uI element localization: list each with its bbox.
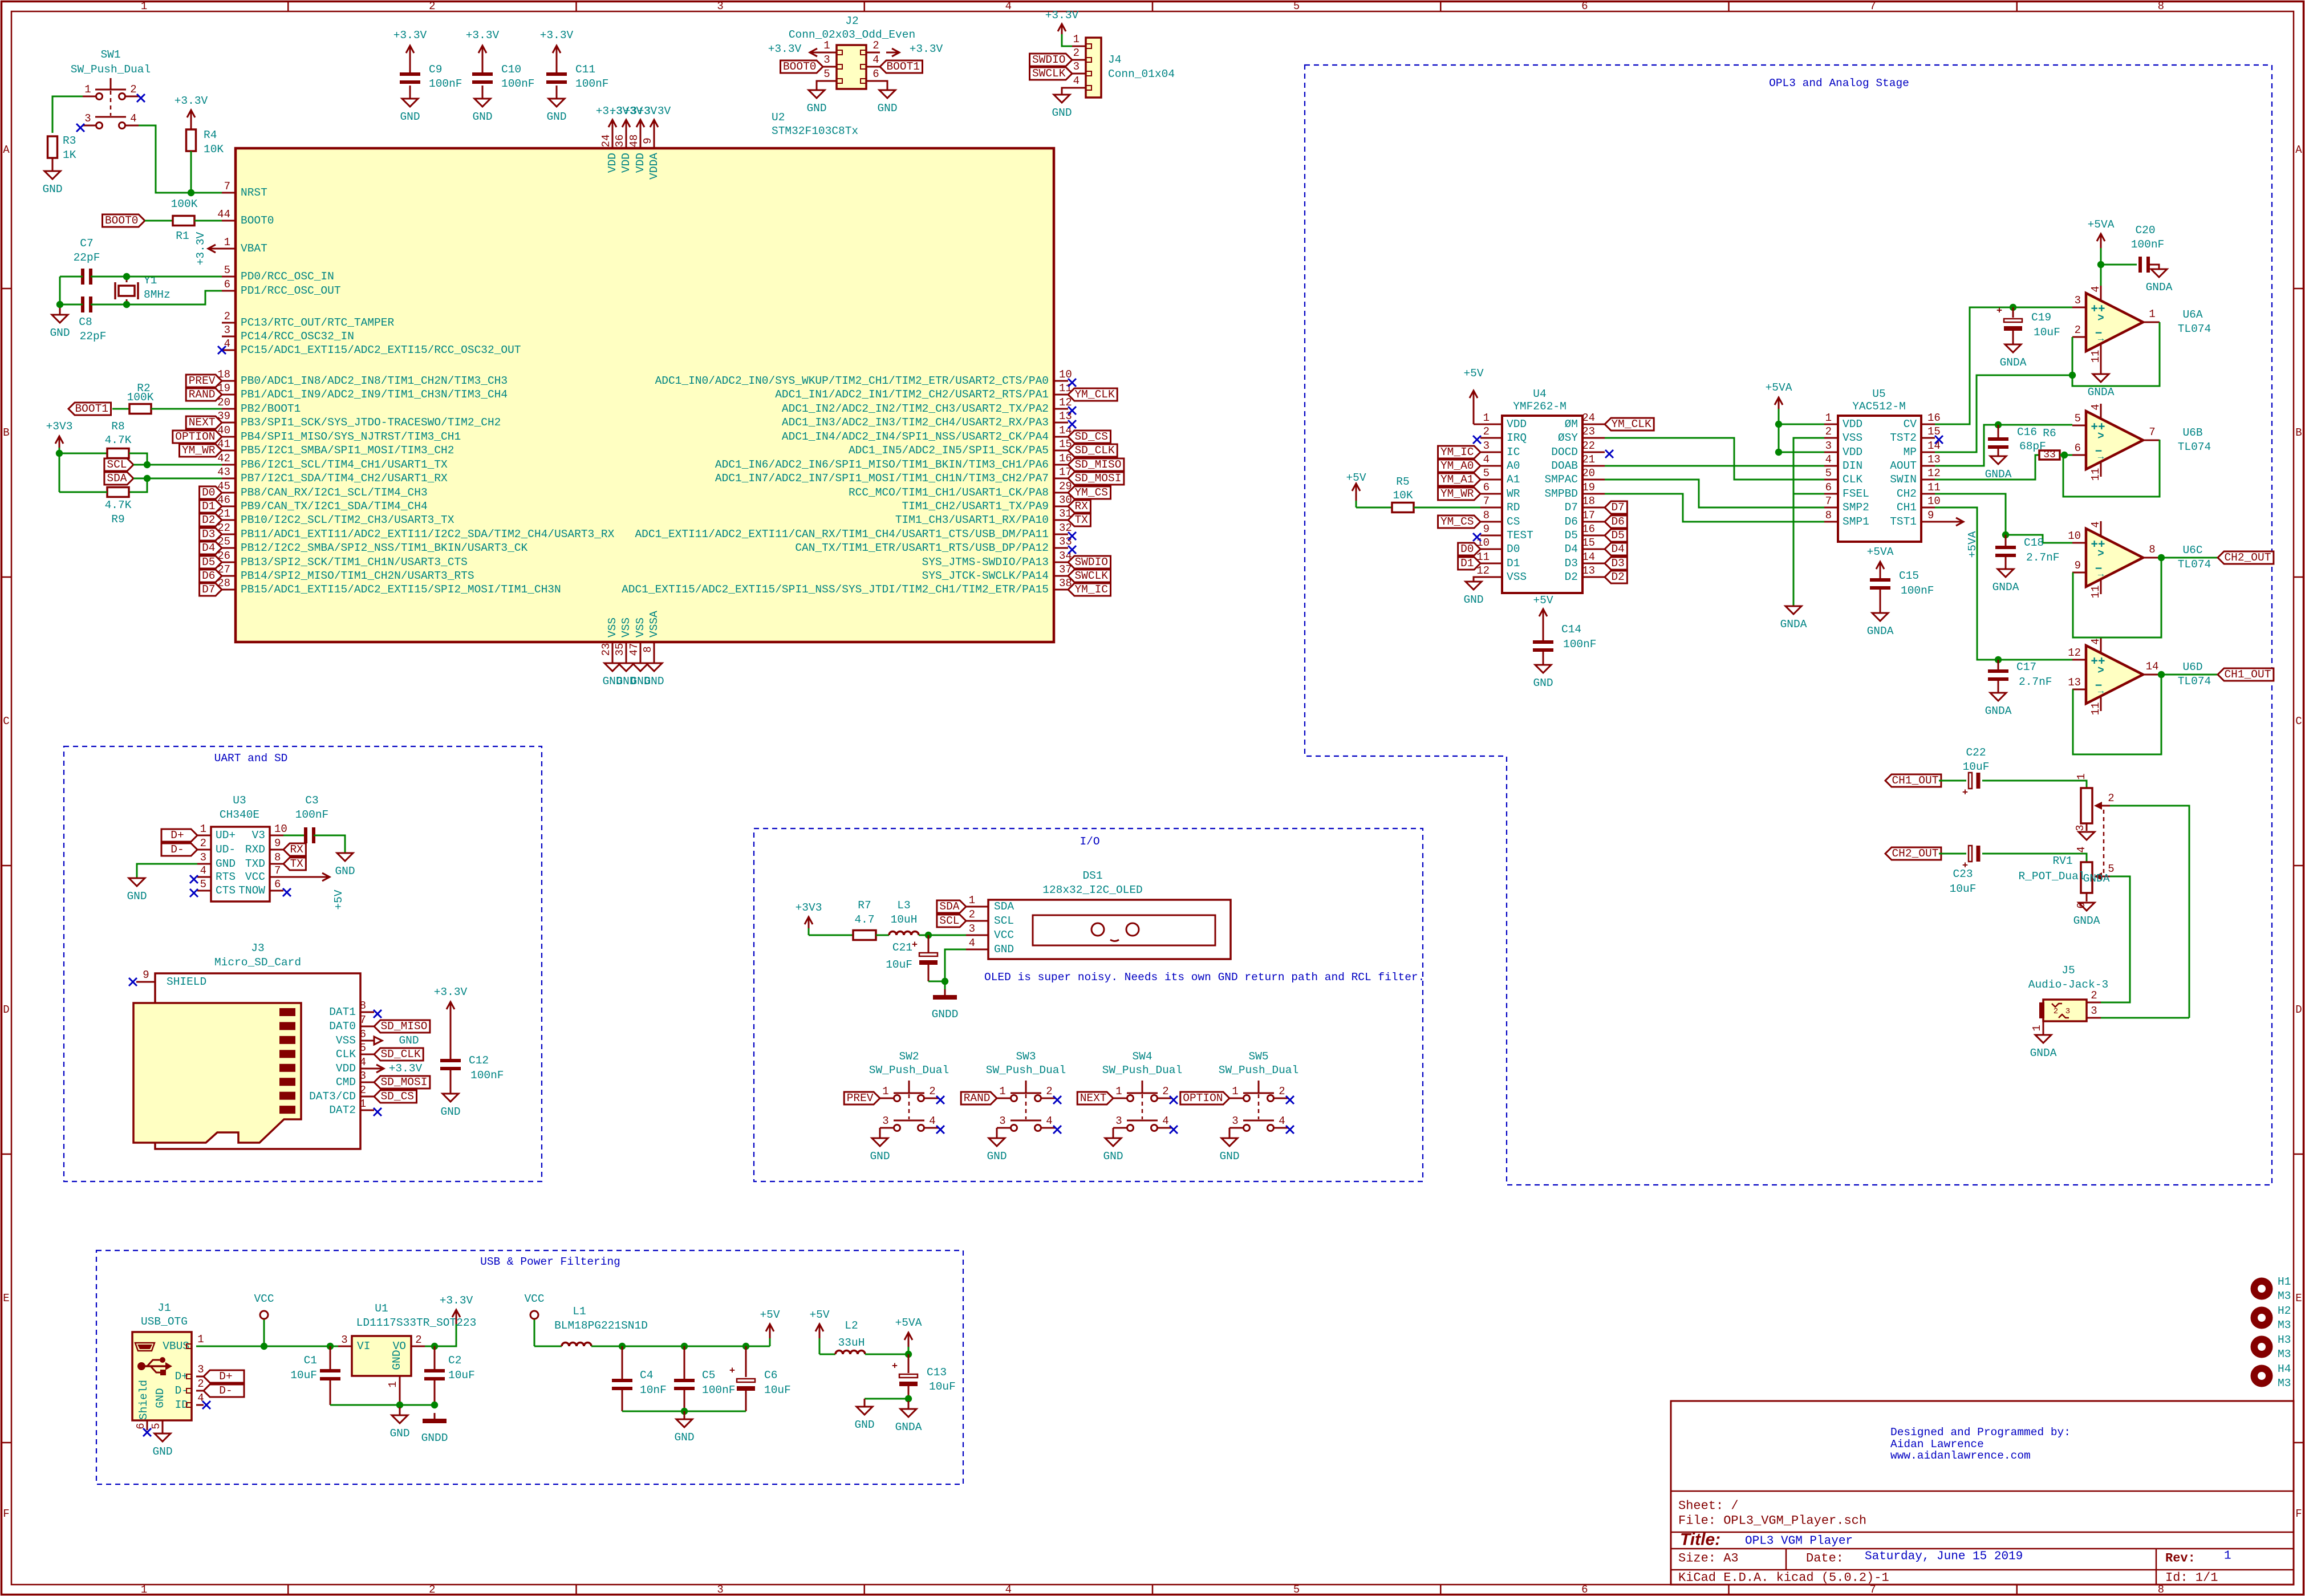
- junction SCL/R8: [144, 461, 151, 468]
- svg-text:8: 8: [1483, 509, 1490, 522]
- svg-text:22pF: 22pF: [74, 251, 100, 264]
- power +5VA (U6A): [2088, 218, 2115, 286]
- svg-text:14: 14: [1582, 551, 1595, 563]
- resistor R9 4.7K: [105, 488, 132, 526]
- hier label BOOT0 (J2): [781, 60, 823, 73]
- wire C3 to GND: [314, 835, 345, 853]
- svg-text:C22: C22: [1966, 746, 1986, 759]
- svg-text:5: 5: [360, 1042, 366, 1054]
- svg-text:SD_CLK: SD_CLK: [380, 1048, 421, 1061]
- svg-text:C15: C15: [1899, 570, 1919, 582]
- svg-text:12: 12: [2068, 647, 2081, 659]
- svg-text:U6B: U6B: [2182, 427, 2202, 439]
- svg-text:11: 11: [2089, 702, 2102, 716]
- svg-text:M3: M3: [2278, 1319, 2291, 1331]
- svg-text:GNDD: GNDD: [932, 1008, 959, 1021]
- svg-text:10: 10: [1059, 368, 1072, 381]
- svg-text:D2: D2: [1565, 571, 1578, 583]
- svg-text:SWDIO: SWDIO: [1032, 54, 1066, 66]
- svg-text:A1: A1: [1507, 473, 1520, 486]
- svg-text:+3.3V: +3.3V: [768, 43, 802, 55]
- svg-text:GND: GND: [42, 183, 62, 196]
- hier label SD_MOSI (U2 right): [1068, 472, 1124, 485]
- svg-text:14: 14: [1927, 440, 1941, 452]
- svg-text:U6A: U6A: [2182, 308, 2202, 321]
- svg-text:1: 1: [2149, 308, 2155, 320]
- svg-text:10uF: 10uF: [764, 1384, 791, 1396]
- svg-text:IC: IC: [1507, 446, 1520, 458]
- svg-text:B: B: [2295, 427, 2302, 439]
- svg-text:H3: H3: [2278, 1334, 2291, 1346]
- svg-text:3: 3: [882, 1115, 888, 1127]
- hier label D+ (J1): [204, 1370, 244, 1383]
- junction C2 top: [431, 1343, 438, 1350]
- svg-text:GND: GND: [994, 943, 1014, 956]
- svg-text:SYS_JTMS-SWDIO/PA13: SYS_JTMS-SWDIO/PA13: [922, 556, 1049, 568]
- no-connect J3 DAT2: [374, 1108, 382, 1116]
- svg-text:5: 5: [200, 878, 206, 891]
- svg-text:SD_MISO: SD_MISO: [1074, 458, 1121, 471]
- display DS1 128x32_I2C_OLED: [966, 870, 1231, 959]
- svg-text:J5: J5: [2061, 964, 2075, 977]
- svg-text:DAT0: DAT0: [329, 1020, 356, 1033]
- ground GND (J2 pin6): [877, 81, 897, 115]
- hier label YM_IC (U2 right): [1068, 583, 1111, 596]
- svg-text:1: 1: [1073, 33, 1080, 46]
- svg-text:GND: GND: [854, 1419, 874, 1431]
- svg-text:YAC512-M: YAC512-M: [1852, 400, 1906, 413]
- svg-text:4: 4: [1005, 0, 1012, 13]
- wire R9 to SDA net: [129, 478, 147, 492]
- power +3.3V (U2 VDD): [596, 105, 671, 134]
- svg-text:KiCad E.D.A. kicad (5.0.2)-1: KiCad E.D.A. kicad (5.0.2)-1: [1678, 1571, 1889, 1585]
- svg-text:47: 47: [628, 643, 640, 656]
- svg-text:4: 4: [1005, 1583, 1012, 1596]
- ground GND (C3): [335, 853, 355, 878]
- ground GNDA (RV1 pot2): [2073, 903, 2100, 927]
- svg-text:3: 3: [200, 851, 206, 864]
- svg-text:1: 1: [387, 1381, 399, 1387]
- svg-text:3: 3: [1232, 1115, 1238, 1127]
- svg-text:R_POT_Dual: R_POT_Dual: [2018, 870, 2085, 883]
- svg-text:GND: GND: [440, 1106, 460, 1118]
- svg-text:DAT3/CD: DAT3/CD: [309, 1090, 356, 1103]
- junction C8 left: [56, 301, 63, 308]
- svg-text:3: 3: [84, 112, 91, 125]
- svg-text:VSS: VSS: [336, 1034, 356, 1047]
- svg-text:A: A: [2295, 144, 2302, 156]
- capacitor C20 100nF: [2131, 224, 2173, 294]
- junction Y1 top: [123, 273, 130, 280]
- svg-text:CS: CS: [1507, 515, 1520, 528]
- svg-text:M3: M3: [2278, 1348, 2291, 1361]
- svg-text:VDD: VDD: [634, 153, 647, 173]
- svg-text:Conn_01x04: Conn_01x04: [1108, 68, 1175, 80]
- svg-text:Saturday, June 15 2019: Saturday, June 15 2019: [1865, 1550, 2023, 1563]
- connector J5 Audio-Jack-3: [2028, 964, 2108, 1035]
- svg-text:2: 2: [1162, 1085, 1168, 1098]
- svg-text:A: A: [3, 144, 10, 156]
- svg-text:C12: C12: [469, 1054, 489, 1067]
- svg-text:1: 1: [2031, 1025, 2043, 1031]
- junction +3V3/R8: [56, 450, 63, 457]
- svg-text:D5: D5: [202, 556, 215, 568]
- svg-text:R6: R6: [2043, 427, 2056, 440]
- hier label D0 (U2): [200, 486, 222, 499]
- svg-text:F: F: [2295, 1508, 2302, 1520]
- no-connect J1 shield: [143, 1428, 151, 1436]
- svg-text:5: 5: [150, 1423, 163, 1429]
- junction U1 GND: [396, 1402, 403, 1408]
- svg-text:D2: D2: [202, 514, 215, 526]
- svg-text:ADC1_IN3/ADC2_IN3/TIM2_CH4/USA: ADC1_IN3/ADC2_IN3/TIM2_CH4/USART2_RX/PA3: [782, 416, 1049, 429]
- svg-text:TL074: TL074: [2178, 558, 2211, 571]
- svg-text:TST2: TST2: [1890, 432, 1917, 444]
- svg-text:>: >: [2097, 430, 2104, 442]
- svg-text:+5V: +5V: [1463, 367, 1483, 380]
- svg-text:B: B: [3, 427, 9, 439]
- regulator U1 LD1117S33TR_SOT223: [338, 1302, 476, 1405]
- svg-text:LD1117S33TR_SOT223: LD1117S33TR_SOT223: [356, 1317, 477, 1329]
- svg-text:D7: D7: [1565, 501, 1578, 514]
- svg-text:GNDA: GNDA: [1780, 618, 1807, 631]
- no-connect J3 SHIELD: [129, 978, 137, 986]
- wire U6B feedback: [2063, 440, 2160, 497]
- hier label CH1_OUT (C22): [1885, 774, 1941, 787]
- svg-text:VCC: VCC: [524, 1293, 544, 1305]
- svg-text:3: 3: [1483, 440, 1490, 452]
- svg-text:43: 43: [217, 466, 230, 478]
- wire R7 to L3: [876, 935, 889, 936]
- svg-text:GND: GND: [127, 890, 147, 903]
- svg-text:10uF: 10uF: [290, 1369, 317, 1382]
- capacitor C3 100nF: [295, 794, 329, 843]
- svg-text:+: +: [892, 1362, 898, 1372]
- svg-text:32: 32: [1059, 522, 1072, 534]
- svg-text:5: 5: [224, 264, 230, 277]
- svg-text:3: 3: [341, 1334, 347, 1346]
- hier label D2 (U4 right): [1605, 571, 1627, 583]
- resistor R3 1K: [48, 135, 76, 161]
- hier label CH2_OUT (C23): [1885, 847, 1941, 860]
- capacitor C5 100nF: [674, 1346, 736, 1411]
- svg-text:DAT2: DAT2: [329, 1104, 356, 1116]
- svg-text:+3.3V: +3.3V: [638, 105, 671, 117]
- svg-text:SDA: SDA: [994, 900, 1014, 913]
- wire CH1 to U6D+: [1935, 507, 2072, 660]
- svg-text:13: 13: [1927, 453, 1941, 466]
- svg-text:7: 7: [1869, 0, 1876, 13]
- crystal Y1 8MHz: [115, 274, 171, 304]
- hier label SDA (DS1): [937, 900, 966, 913]
- svg-text:>: >: [2097, 664, 2104, 677]
- svg-text:7: 7: [1483, 495, 1490, 507]
- inductor L3 10uH: [889, 899, 919, 935]
- ground GND (R3): [42, 158, 62, 196]
- svg-text:10K: 10K: [204, 143, 224, 156]
- svg-text:+3.3V: +3.3V: [194, 232, 207, 265]
- svg-text:100nF: 100nF: [295, 809, 329, 821]
- svg-text:PB10/I2C2_SCL/TIM2_CH3/USART3_: PB10/I2C2_SCL/TIM2_CH3/USART3_TX: [241, 514, 454, 526]
- op-amp U6D TL074: [2068, 638, 2211, 715]
- svg-text:4: 4: [130, 112, 136, 125]
- svg-text:YM_CS: YM_CS: [1074, 486, 1108, 499]
- no-connect U4 IRQ: [1473, 436, 1481, 444]
- svg-text:5: 5: [1825, 467, 1832, 480]
- svg-text:TIM1_CH2/USART1_TX/PA9: TIM1_CH2/USART1_TX/PA9: [902, 500, 1049, 513]
- no-connect U2 right 668: [1068, 379, 1076, 387]
- svg-text:SD_CS: SD_CS: [1074, 431, 1108, 443]
- wire SCL to U2 pin42: [133, 464, 222, 466]
- svg-text:SW_Push_Dual: SW_Push_Dual: [1219, 1064, 1298, 1077]
- no-connect U2 right 961: [1068, 546, 1076, 554]
- capacitor C22 10uF: [1962, 746, 1990, 799]
- junction R6/U6B-: [2061, 452, 2068, 458]
- svg-text:2: 2: [1046, 1085, 1052, 1098]
- svg-text:VSS: VSS: [620, 618, 632, 637]
- capacitor C12 100nF: [434, 986, 504, 1118]
- svg-text:CMD: CMD: [336, 1076, 356, 1089]
- svg-text:3: 3: [224, 324, 230, 336]
- svg-text:SYS_JTCK-SWCLK/PA14: SYS_JTCK-SWCLK/PA14: [922, 570, 1049, 582]
- svg-text:6: 6: [360, 1028, 366, 1041]
- svg-text:6: 6: [135, 1423, 147, 1429]
- svg-text:OPL3 VGM Player: OPL3 VGM Player: [1745, 1535, 1853, 1548]
- svg-text:PB1/ADC1_IN9/ADC2_IN9/TIM1_CH3: PB1/ADC1_IN9/ADC2_IN9/TIM1_CH3N/TIM3_CH4: [241, 388, 508, 401]
- wire RV1 wiper1: [2110, 806, 2189, 1018]
- svg-text:+3.3V: +3.3V: [1045, 9, 1079, 22]
- ground GND (J4 pin4): [1052, 88, 1072, 119]
- svg-text:4: 4: [1483, 453, 1490, 466]
- wire C21 to GNDD: [928, 981, 945, 982]
- svg-text:+3.3V: +3.3V: [434, 986, 468, 998]
- svg-text:OPTION: OPTION: [1183, 1092, 1223, 1104]
- svg-text:D4: D4: [1565, 543, 1578, 555]
- svg-text:YM_A1: YM_A1: [1440, 473, 1474, 486]
- svg-text:F: F: [3, 1508, 9, 1520]
- hier label RX (U3): [283, 843, 306, 856]
- wire +5VA to U5 VDD3: [1779, 452, 1824, 453]
- resistor R6 33: [2039, 427, 2060, 461]
- svg-text:36: 36: [614, 135, 626, 148]
- svg-text:SW3: SW3: [1016, 1050, 1036, 1063]
- svg-text:ADC1_IN6/ADC2_IN6/SPI1_MISO/TI: ADC1_IN6/ADC2_IN6/SPI1_MISO/TIM1_BKIN/TI…: [715, 458, 1049, 471]
- power +5V (L1 out): [760, 1309, 780, 1346]
- capacitor C2 10uF: [424, 1346, 475, 1405]
- connector J1 USB_OTG: [132, 1302, 204, 1430]
- capacitor C11 100nF: [540, 29, 609, 123]
- svg-text:+5V: +5V: [809, 1309, 829, 1321]
- power +5V (U4 VDD): [1463, 367, 1483, 424]
- power +5VA (L2 out): [895, 1317, 922, 1354]
- svg-text:RCC_MCO/TIM1_CH1/USART1_CK/PA8: RCC_MCO/TIM1_CH1/USART1_CK/PA8: [849, 486, 1049, 499]
- hier label SD_MISO (J3): [374, 1020, 430, 1033]
- svg-text:H4: H4: [2278, 1363, 2291, 1375]
- svg-text:→: →: [2098, 452, 2104, 463]
- svg-text:>: >: [2097, 312, 2104, 324]
- svg-text:UD-: UD-: [216, 843, 236, 856]
- svg-text:PD0/RCC_OSC_IN: PD0/RCC_OSC_IN: [241, 270, 334, 283]
- svg-text:1: 1: [969, 894, 975, 907]
- svg-text:U2: U2: [772, 111, 785, 124]
- svg-text:1: 1: [2224, 1550, 2231, 1563]
- svg-text:2: 2: [429, 0, 435, 13]
- svg-text:17: 17: [1582, 509, 1595, 522]
- svg-text:1: 1: [1115, 1085, 1122, 1098]
- svg-text:U1: U1: [375, 1302, 388, 1315]
- svg-text:+3V3: +3V3: [46, 420, 73, 433]
- wire +5V to L2: [819, 1354, 835, 1355]
- svg-text:SW_Push_Dual: SW_Push_Dual: [71, 63, 151, 76]
- junction C17: [1995, 656, 2002, 663]
- svg-text:22pF: 22pF: [80, 330, 107, 343]
- wire R8 to SCL net: [129, 453, 147, 465]
- svg-text:SMPAC: SMPAC: [1544, 473, 1578, 486]
- wire R1 to U2 pin44: [194, 220, 222, 222]
- svg-text:PREV: PREV: [189, 375, 216, 387]
- hier label RAND: [186, 388, 222, 401]
- wire C18 to U6C+: [2006, 535, 2072, 543]
- svg-text:PB15/ADC1_EXTI15/ADC2_EXTI15/S: PB15/ADC1_EXTI15/ADC2_EXTI15/SPI2_MOSI/T…: [241, 583, 561, 596]
- junction C19: [2010, 304, 2016, 311]
- no-connect U4 TEST: [1473, 533, 1481, 541]
- power +3.3V (VBAT): [194, 232, 222, 265]
- svg-text:C9: C9: [429, 63, 442, 76]
- svg-text:4: 4: [1073, 75, 1080, 87]
- svg-text:8MHz: 8MHz: [144, 289, 171, 301]
- svg-text:8: 8: [1825, 509, 1832, 522]
- svg-text:19: 19: [1582, 481, 1595, 494]
- svg-text:SWCLK: SWCLK: [1074, 570, 1108, 582]
- svg-text:U5: U5: [1872, 388, 1885, 400]
- svg-text:6: 6: [1483, 481, 1490, 494]
- svg-text:+3.3V: +3.3V: [466, 29, 500, 42]
- svg-text:4: 4: [2089, 521, 2102, 527]
- svg-text:GNDD: GNDD: [421, 1432, 448, 1444]
- ground GNDD (C2): [421, 1413, 448, 1444]
- svg-text:4.7K: 4.7K: [105, 434, 132, 446]
- svg-text:Date:: Date:: [1806, 1552, 1844, 1566]
- svg-text:Aidan Lawrence: Aidan Lawrence: [1890, 1438, 1984, 1451]
- svg-text:9: 9: [2075, 559, 2081, 572]
- svg-text:15: 15: [1582, 537, 1595, 549]
- svg-text:+3.3V: +3.3V: [910, 43, 943, 55]
- svg-text:CH2_OUT: CH2_OUT: [2224, 551, 2271, 564]
- svg-text:GND: GND: [1533, 677, 1553, 689]
- ground GNDA (C13): [895, 1401, 922, 1433]
- svg-text:9: 9: [1483, 523, 1490, 535]
- svg-text:GNDA: GNDA: [1867, 625, 1894, 637]
- resistor R5 10K: [1392, 476, 1414, 513]
- resistor R4 10K: [186, 129, 224, 156]
- svg-text:3: 3: [717, 1583, 723, 1596]
- capacitor C1 10uF: [290, 1346, 340, 1405]
- svg-text:R4: R4: [204, 129, 217, 141]
- note OLED noise: [984, 971, 1425, 984]
- ground GNDA (J5): [2030, 1035, 2057, 1059]
- no-connect U2 pin4: [218, 346, 226, 354]
- svg-text:SDA: SDA: [939, 900, 959, 913]
- svg-text:1: 1: [200, 823, 206, 835]
- hier label SDA: [104, 472, 133, 485]
- svg-text:+3.3V: +3.3V: [540, 29, 574, 42]
- svg-text:FSEL: FSEL: [1843, 488, 1869, 500]
- svg-text:File: OPL3_VGM_Player.sch: File: OPL3_VGM_Player.sch: [1678, 1514, 1866, 1528]
- svg-text:SDA: SDA: [107, 472, 127, 485]
- op-amp U6C TL074: [2068, 521, 2211, 598]
- svg-text:ADC1_EXTI11/ADC2_EXTI11/CAN_RX: ADC1_EXTI11/ADC2_EXTI11/CAN_RX/TIM1_CH4/…: [635, 528, 1049, 541]
- svg-text:J2: J2: [845, 15, 858, 27]
- svg-text:PB13/SPI2_SCK/TIM1_CH1N/USART3: PB13/SPI2_SCK/TIM1_CH1N/USART3_CTS: [241, 556, 468, 568]
- wire R2 to U2 pin20: [151, 408, 222, 410]
- svg-text:1: 1: [197, 1333, 204, 1346]
- svg-text:6: 6: [224, 278, 230, 291]
- svg-text:4: 4: [200, 864, 206, 877]
- power +3.3V (J3 VDD): [374, 1062, 423, 1075]
- svg-text:7: 7: [1825, 495, 1832, 507]
- junction C20: [2097, 261, 2104, 268]
- svg-text:→: →: [2098, 334, 2104, 345]
- ground GND (J1 pin5): [152, 1430, 172, 1458]
- wire C7-C8 left: [59, 277, 61, 304]
- power +5VA (U5): [1766, 381, 1792, 452]
- resistor R1 100K: [171, 198, 198, 242]
- junction C13 top: [905, 1351, 912, 1358]
- svg-text:D1: D1: [1507, 557, 1520, 570]
- hier label TX (U3): [283, 858, 306, 870]
- svg-text:+: +: [1962, 788, 1968, 799]
- svg-text:D6: D6: [202, 570, 215, 582]
- svg-text:Shield: Shield: [137, 1380, 150, 1420]
- svg-text:MP: MP: [1904, 446, 1917, 458]
- svg-text:1: 1: [141, 1583, 147, 1596]
- svg-text:PB12/I2C2_SMBA/SPI2_NSS/TIM1_B: PB12/I2C2_SMBA/SPI2_NSS/TIM1_BKIN/USART3…: [241, 542, 527, 554]
- wire C7 row to PD0: [60, 276, 222, 278]
- svg-text:SD_MOSI: SD_MOSI: [380, 1076, 427, 1089]
- hier label RX (U2 right): [1068, 500, 1090, 513]
- svg-text:Sheet: /: Sheet: /: [1678, 1499, 1739, 1513]
- hier label D6 (U4 right): [1605, 515, 1627, 528]
- svg-text:GND: GND: [644, 675, 664, 688]
- connector J2 Conn_02x03_Odd_Even: [789, 15, 915, 89]
- svg-text:D5: D5: [1565, 529, 1578, 542]
- svg-text:D1: D1: [202, 500, 215, 513]
- svg-text:SW5: SW5: [1248, 1050, 1268, 1063]
- svg-text:100nF: 100nF: [575, 78, 609, 90]
- op-amp U6B TL074: [2072, 404, 2211, 481]
- hier label SWCLK (U2 right): [1068, 570, 1111, 582]
- switch SW5 SW_Push_Dual: [1180, 1050, 1298, 1163]
- hier label TX (U2 right): [1068, 514, 1090, 526]
- svg-text:VSS: VSS: [1843, 432, 1862, 444]
- hier label BOOT0: [103, 214, 145, 227]
- hier label D1 (U2): [200, 500, 222, 513]
- power +3V3 (R8/R9): [46, 420, 73, 492]
- svg-text:4: 4: [873, 54, 879, 66]
- hier label CH1_OUT (U6D): [2218, 668, 2274, 681]
- svg-text:SMP1: SMP1: [1843, 515, 1869, 528]
- svg-text:4: 4: [1279, 1115, 1285, 1127]
- svg-text:+: +: [1996, 306, 2002, 317]
- resistor R7 4.7: [853, 899, 876, 940]
- svg-text:RX: RX: [1074, 500, 1088, 513]
- svg-text:23: 23: [600, 643, 612, 656]
- svg-text:YM_IC: YM_IC: [1074, 583, 1108, 596]
- svg-text:2: 2: [360, 1084, 366, 1097]
- svg-text:VDDA: VDDA: [648, 153, 660, 180]
- svg-text:CH1: CH1: [1897, 501, 1917, 514]
- dashed gang line RV1: [2103, 810, 2105, 873]
